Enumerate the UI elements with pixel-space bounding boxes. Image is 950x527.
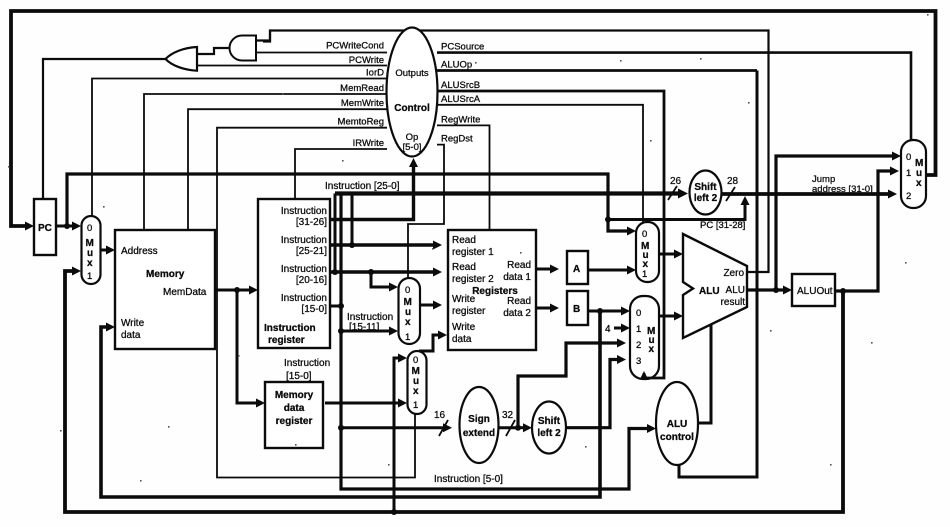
svg-text:Instruction: Instruction (281, 293, 327, 304)
register PC (34, 199, 56, 255)
svg-text:2: 2 (906, 191, 911, 202)
svg-text:2: 2 (636, 340, 641, 351)
svg-text:register 1: register 1 (452, 247, 494, 258)
svg-text:1: 1 (405, 332, 410, 343)
node sign extend output junction (515, 425, 521, 431)
svg-text:Sign: Sign (468, 414, 490, 425)
svg-text:0: 0 (642, 229, 647, 240)
control line IRWrite (295, 149, 387, 199)
svg-text:ALU: ALU (699, 286, 720, 297)
gate OR (mirrored, output left) (166, 47, 198, 71)
wire ALUOut wrap to bottom rail (65, 271, 843, 512)
svg-text:Write: Write (121, 318, 145, 329)
svg-text:x: x (87, 258, 93, 269)
wire MemData output to instruction register (215, 289, 251, 292)
svg-text:register: register (276, 416, 313, 427)
oval sign extend (460, 387, 499, 463)
svg-text:MemRead: MemRead (340, 83, 384, 94)
svg-text:1: 1 (906, 168, 911, 179)
node MemData junction (234, 287, 240, 293)
svg-text:1: 1 (413, 400, 418, 411)
wire read data 2 to B (536, 307, 552, 310)
svg-text:register 2: register 2 (452, 274, 494, 285)
svg-text:[15-11]: [15-11] (349, 322, 380, 333)
svg-text:1: 1 (642, 269, 647, 280)
svg-text:Shift: Shift (538, 416, 561, 427)
svg-text:16: 16 (434, 410, 446, 421)
svg-text:Write: Write (452, 294, 476, 305)
register ALUOut (792, 274, 835, 306)
svg-text:28: 28 (727, 176, 739, 187)
mux MemtoReg (0 Mux 1) (408, 351, 427, 414)
control line RegDst (408, 145, 444, 278)
node B output junction (597, 308, 603, 314)
control line MemWrite (188, 109, 387, 230)
svg-text:A: A (573, 264, 580, 275)
svg-text:address [31-0]: address [31-0] (812, 184, 873, 195)
wire ALUOut to PCSource mux input 1 (835, 171, 892, 291)
wire IorD mux output to Memory Address (101, 249, 109, 252)
wire bus drop to instruction [20-16] (334, 194, 337, 273)
svg-text:4: 4 (605, 324, 611, 335)
svg-text:Read: Read (452, 262, 476, 273)
node bottom rail junction (391, 509, 397, 515)
node [20-16] branch junction (368, 269, 374, 275)
wire instruction [25-21] to read register 1 (330, 243, 435, 246)
wire RegDst mux output to write register (420, 304, 435, 307)
control line IorD (92, 79, 387, 217)
svg-text:PCWrite: PCWrite (349, 55, 384, 66)
svg-text:x: x (916, 178, 922, 189)
svg-text:PC [31-28]: PC [31-28] (700, 220, 745, 231)
svg-text:left 2: left 2 (537, 428, 561, 439)
control line MemtoReg (217, 128, 415, 478)
svg-text:Read: Read (507, 296, 531, 307)
svg-text:Outputs: Outputs (395, 68, 429, 79)
wire read data 1 to A (536, 268, 552, 271)
svg-text:IRWrite: IRWrite (353, 138, 384, 149)
svg-text:[25-21]: [25-21] (296, 246, 327, 257)
svg-text:PC: PC (38, 223, 52, 234)
wire instruction [15-0] to sign extend (341, 426, 444, 429)
wire [20-16] branch to RegDst mux input 0 (371, 272, 391, 287)
node slash 16 (439, 420, 448, 436)
svg-text:0: 0 (405, 285, 410, 296)
control line ALUOp (437, 69, 757, 72)
wire shift left 2 output to ALUSrcB input 3 (566, 360, 619, 428)
mux ALUSrcB (0 1 2 3 Mux) (630, 296, 659, 379)
wire sign extend staircase to ALUSrcB input 2 (518, 343, 619, 428)
svg-text:ALU: ALU (726, 285, 745, 296)
svg-text:ALUSrcB: ALUSrcB (441, 80, 480, 91)
svg-text:x: x (405, 317, 411, 328)
svg-text:[15-0]: [15-0] (301, 304, 327, 315)
wire instruction [25-0] bus to shift left 2 (335, 191, 679, 195)
wire MemData to memory data register (237, 290, 258, 403)
svg-text:RegDst: RegDst (441, 134, 473, 145)
node PC[31-28] tap (605, 217, 611, 223)
svg-text:RegWrite: RegWrite (441, 114, 480, 125)
wire bus drop to instruction [25-21] (351, 194, 354, 246)
wire B output to ALUSrcB mux input 0 (588, 310, 623, 313)
svg-text:Address: Address (121, 246, 158, 257)
svg-text:Instruction [5-0]: Instruction [5-0] (434, 474, 503, 485)
svg-text:1: 1 (87, 271, 92, 282)
register B (567, 291, 588, 325)
wire ALUOp into ALU control bottom (679, 71, 757, 478)
wire ALUSrcA mux output to ALU (659, 253, 676, 256)
wire ALUOut riser to MemtoReg mux input 0 (394, 358, 400, 512)
svg-text:Read: Read (507, 260, 531, 271)
wire OR output to PC write enable (43, 59, 166, 199)
node slash 28 (726, 187, 735, 201)
wire ALUSrcB mux output to ALU (659, 315, 676, 318)
svg-text:0: 0 (87, 223, 92, 234)
svg-text:Instruction: Instruction (281, 264, 327, 275)
wire instruction [15-11] to RegDst mux input 1 (341, 330, 391, 333)
register memory data register MDR (265, 382, 323, 448)
svg-text:Instruction: Instruction (281, 235, 327, 246)
svg-text:extend: extend (463, 428, 495, 439)
svg-text:PCSource: PCSource (441, 42, 484, 53)
svg-text:ALU: ALU (667, 419, 688, 430)
control line ALUSrcB (437, 91, 664, 378)
svg-text:32: 32 (502, 410, 514, 421)
svg-text:3: 3 (636, 356, 641, 367)
wire PC-source mux output wrap-around to PC input (11, 11, 936, 226)
wire AND output step to OR input (197, 48, 229, 54)
wire ALU result to ALUOut (747, 288, 785, 291)
svg-text:Shift: Shift (694, 182, 717, 193)
wire sign extend output (499, 426, 518, 429)
wire ALU result riser to PCSource mux input 0 (776, 156, 894, 290)
svg-text:MemData: MemData (163, 287, 207, 298)
mux ALUSrcA (0 Mux 1) (636, 222, 659, 282)
wire MDR output to MemtoReg mux input 1 (325, 402, 400, 405)
control line PCWriteCond to AND gate (256, 52, 387, 54)
register file Registers (448, 230, 536, 350)
wire instruction [31-26] to control Op input (330, 166, 414, 220)
wire instruction [15-0] stub to bus carrier (330, 305, 341, 308)
wire bus drop instruction [15-0] long carrier (341, 194, 649, 490)
svg-text:ALUOp: ALUOp (441, 60, 472, 71)
svg-text:control: control (660, 432, 694, 443)
svg-text:Control: Control (394, 103, 430, 114)
svg-text:Instruction [25-0]: Instruction [25-0] (325, 181, 400, 192)
svg-text:Read: Read (452, 235, 476, 246)
wire PC up-and-right trunk to ALUSrcA mux (67, 174, 628, 231)
svg-text:[20-16]: [20-16] (296, 275, 327, 286)
svg-text:x: x (649, 344, 655, 355)
svg-text:Memory: Memory (146, 269, 185, 280)
oval shift left 2 (jump) (690, 171, 722, 215)
wire AND top input step to Zero line (256, 31, 270, 41)
svg-text:register: register (452, 306, 486, 317)
svg-text:Instruction: Instruction (284, 358, 330, 369)
node bus slash 26 (668, 186, 677, 200)
svg-text:[31-26]: [31-26] (296, 217, 327, 228)
gate AND (mirrored, output left) (230, 36, 256, 61)
svg-text:MemtoReg: MemtoReg (338, 117, 384, 128)
oval ALU control (656, 382, 698, 465)
svg-text:data: data (121, 330, 141, 341)
svg-text:0: 0 (636, 308, 641, 319)
svg-text:x: x (413, 386, 419, 397)
svg-text:IorD: IorD (366, 68, 384, 79)
control line RegWrite (437, 125, 490, 230)
alu ALU (683, 234, 747, 338)
wire PC output to IorD mux input 0 (56, 225, 74, 228)
control line PCWrite to OR gate (197, 65, 387, 67)
wire A output to ALUSrcA mux input 1 (588, 269, 629, 272)
wire MemtoReg mux output to write data (419, 335, 440, 351)
svg-text:0: 0 (413, 355, 418, 366)
register instruction register IR (258, 199, 330, 348)
node ALU result junction (773, 287, 779, 293)
node PC output junction (64, 223, 70, 229)
svg-text:26: 26 (670, 176, 682, 187)
control line ALUSrcA (437, 105, 643, 222)
control line PCSource to PCSource mux (437, 53, 911, 140)
svg-text:ALUSrcA: ALUSrcA (441, 94, 481, 105)
wire arrowhead into PC (25, 222, 34, 231)
svg-text:1: 1 (636, 324, 641, 335)
svg-text:Memory: Memory (275, 390, 314, 401)
control line MemRead (144, 94, 387, 230)
wire sign extend to shift left 2 (518, 426, 525, 429)
node ALUOut output junction (840, 288, 846, 294)
svg-text:left 2: left 2 (694, 193, 718, 204)
oval shift left 2 (ALU operand) (532, 402, 566, 454)
svg-text:data 1: data 1 (503, 272, 531, 283)
mux PCSource (0 1 2 Mux) (901, 140, 926, 208)
wire Zero loop to AND gate (263, 31, 769, 273)
svg-text:MemWrite: MemWrite (341, 98, 384, 109)
svg-text:data: data (452, 334, 472, 345)
svg-text:result: result (721, 297, 746, 308)
oval control unit (387, 28, 438, 157)
svg-text:0: 0 (906, 152, 911, 163)
svg-text:ALUOut: ALUOut (797, 286, 833, 297)
memory unit (115, 230, 215, 349)
svg-text:[5-0]: [5-0] (402, 142, 421, 153)
svg-text:B: B (573, 304, 580, 315)
node slash 32 (506, 420, 515, 436)
svg-text:Zero: Zero (723, 268, 744, 279)
wire ALU control output to ALU bottom (698, 324, 711, 423)
svg-text:Instruction: Instruction (281, 206, 327, 217)
register A (567, 251, 588, 284)
svg-text:data 2: data 2 (503, 308, 531, 319)
wire instruction [20-16] to read register 2 (330, 270, 435, 273)
svg-text:Instruction: Instruction (264, 323, 316, 334)
wire jump address line to PCSource mux input 2 (721, 192, 890, 196)
svg-text:[15-0]: [15-0] (286, 371, 312, 382)
mux RegDst (0 Mux 1) (399, 278, 421, 344)
svg-text:register: register (268, 335, 305, 346)
wire B loop to memory write data (101, 311, 600, 497)
svg-text:data: data (284, 403, 305, 414)
mux IorD (0 Mux 1) (82, 216, 101, 284)
svg-text:PCWriteCond: PCWriteCond (326, 41, 384, 52)
svg-text:Write: Write (452, 322, 476, 333)
wire PC[31-28] to jump address line (608, 203, 745, 220)
